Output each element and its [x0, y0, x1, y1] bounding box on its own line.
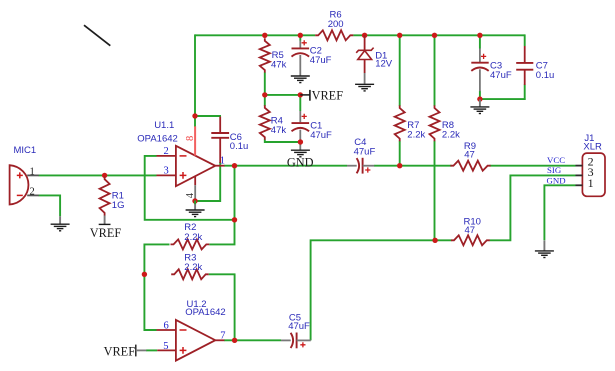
svg-text:47: 47 — [464, 149, 475, 160]
junction feedback to R2 — [232, 217, 237, 222]
capacitor C5 straight plate — [296, 333, 298, 349]
svg-text:1: 1 — [30, 166, 35, 177]
svg-text:VREF: VREF — [90, 226, 122, 240]
MIC1 plus mark — [17, 172, 23, 178]
svg-text:GND: GND — [287, 155, 314, 169]
U1.1 minus mark — [180, 155, 187, 157]
wire XLR pin1 GND down — [544, 185, 575, 240]
junction C3/C7 bottom — [477, 96, 482, 101]
svg-text:47k: 47k — [271, 125, 287, 136]
svg-text:0.1u: 0.1u — [230, 141, 249, 152]
junction VREF row / R5-R4 — [262, 92, 267, 97]
junction top rail / D1 — [362, 33, 367, 38]
resistor R1 — [100, 177, 110, 216]
capacitor C2 curved plate — [292, 53, 310, 56]
svg-text:2: 2 — [164, 146, 169, 157]
diode D1 bottom lead — [364, 60, 366, 74]
svg-text:47uF: 47uF — [490, 70, 512, 81]
capacitor C3 top lead — [479, 49, 481, 63]
ground below C3 — [479, 99, 481, 107]
wire C4 to R9 — [374, 165, 451, 167]
capacitor C2 straight plate — [292, 47, 310, 49]
junction VREF row / C1 — [298, 92, 303, 97]
capacitor C7 bottom lead — [524, 70, 526, 85]
junction U1.1 pin8 / C6 — [192, 113, 197, 118]
junction top rail / C3 — [477, 33, 482, 38]
ground below C1 — [291, 149, 310, 151]
power port VREF bar — [309, 90, 311, 101]
resistor R5 — [260, 38, 270, 72]
U1.1 pin 4 stub upper — [194, 176, 196, 185]
svg-text:U1.1: U1.1 — [154, 120, 174, 131]
capacitor C3 curved plate — [471, 68, 488, 71]
C5 plus mark — [300, 342, 305, 347]
capacitor C3 bottom lead — [479, 69, 481, 91]
capacitor C4 right lead — [363, 165, 375, 167]
wire R10 to SIG / XLR pin3 — [490, 175, 576, 240]
capacitor C1 bottom lead — [299, 130, 301, 150]
wire R8 bottom to bottom rail — [434, 141, 436, 241]
junction C1 bottom / R4 — [298, 139, 303, 144]
svg-text:5: 5 — [163, 341, 168, 352]
green stub pin4 to ground — [194, 201, 196, 205]
junction R8 / R10 — [432, 238, 437, 243]
capacitor C7 top lead — [524, 46, 526, 63]
svg-text:1G: 1G — [112, 200, 125, 211]
svg-text:47uF: 47uF — [288, 321, 310, 332]
junction U1.1 pin4 / C6 — [192, 198, 197, 203]
wire C6 top jumper — [195, 115, 221, 117]
microphone MIC1 body — [10, 165, 29, 204]
C4 plus mark — [365, 167, 370, 172]
lead MIC1 ground stub — [59, 216, 61, 224]
wire C5 to bottom rail to R10 — [311, 240, 452, 340]
C1 plus mark — [302, 114, 307, 119]
svg-text:VCC: VCC — [547, 155, 565, 165]
capacitor C4 curved plate — [357, 158, 360, 173]
wire R7 bottom to output wire — [399, 141, 401, 167]
U1.1 pin 4 stub lower — [194, 185, 196, 200]
junction U1.2 output — [232, 338, 237, 343]
svg-text:4: 4 — [185, 192, 196, 198]
svg-text:6: 6 — [164, 320, 169, 331]
svg-text:1: 1 — [588, 176, 594, 190]
capacitor C7 top plate — [516, 62, 533, 64]
capacitor C1 curved plate — [292, 128, 310, 131]
svg-text:OPA1642: OPA1642 — [137, 133, 178, 144]
svg-text:OPA1642: OPA1642 — [185, 307, 226, 318]
svg-text:47k: 47k — [271, 60, 287, 71]
svg-text:47uF: 47uF — [310, 130, 332, 141]
resistor R4 — [260, 105, 270, 140]
svg-text:47: 47 — [465, 225, 476, 236]
MIC1 minus mark — [17, 194, 23, 196]
J1 pin 2 stub — [576, 165, 583, 167]
J1 pin 1 stub — [576, 184, 583, 186]
wire R5 bottom to VREF node — [264, 72, 266, 95]
resistor R9 — [450, 161, 490, 171]
junction top rail / R8 — [432, 33, 437, 38]
wire top rail left segment — [195, 34, 315, 36]
power port VREF lead right of C1 node — [300, 94, 310, 96]
wire R3 right — [209, 273, 236, 275]
ground below C2 — [291, 75, 310, 77]
diode D1 triangle — [358, 51, 372, 60]
capacitor C4 straight plate — [362, 158, 364, 174]
wire C3 bottom — [479, 91, 481, 100]
wire U1.2 output to C5 — [224, 339, 281, 341]
capacitor C4 left lead — [347, 165, 357, 167]
svg-text:47uF: 47uF — [354, 146, 376, 157]
C2 plus mark — [302, 40, 307, 45]
wire C6 bottom jumper — [194, 162, 220, 201]
wire C7 bottom corner — [524, 85, 526, 101]
wire top rail to R7 — [399, 34, 401, 106]
capacitor C1 top lead — [299, 111, 301, 122]
junction R7 bottom — [397, 163, 402, 168]
C3 plus mark — [481, 54, 486, 59]
wire MIC1 pin1 to U1.1 pin3 — [39, 174, 157, 176]
wire top rail to C3 — [479, 34, 481, 48]
svg-text:2: 2 — [30, 186, 35, 197]
wire VREF node to R4 top — [264, 95, 266, 106]
svg-text:12V: 12V — [375, 59, 393, 70]
diode D1 ground stub — [364, 73, 366, 84]
wire top rail right segment — [353, 34, 525, 36]
svg-text:GND: GND — [547, 176, 566, 186]
svg-text:0.1u: 0.1u — [536, 70, 555, 81]
capacitor C6 top lead — [219, 117, 221, 134]
MIC1 pin 1 stub — [27, 174, 39, 176]
op-amp U1.2 triangle — [176, 320, 215, 361]
wire U1.1 output feedback down to R2 — [209, 166, 234, 245]
svg-text:XLR: XLR — [583, 141, 602, 152]
capacitor C6 bottom lead — [219, 138, 221, 163]
U1.1 pin 3 stub — [157, 174, 176, 176]
capacitor C7 bottom plate — [516, 69, 533, 71]
svg-text:7: 7 — [220, 331, 225, 342]
wire U1.1 output to C4 — [224, 165, 347, 167]
ground below D1 — [355, 83, 374, 85]
ground below MIC1 — [51, 223, 70, 225]
capacitor C2 bottom lead — [299, 55, 301, 76]
svg-text:2.2k: 2.2k — [184, 232, 202, 243]
wire top rail to R8 — [434, 34, 436, 106]
U1.1 pin 1 stub — [215, 165, 224, 167]
wire R3 right down to U1.2 output — [234, 274, 236, 341]
op-amp U1.1 triangle — [176, 146, 215, 186]
U1.1 plus mark — [180, 172, 187, 179]
wire MIC1 pin2 to ground — [39, 195, 61, 216]
svg-text:200: 200 — [328, 19, 344, 30]
J1 pin 3 stub — [576, 174, 583, 176]
connector J1 XLR box — [582, 153, 605, 196]
svg-text:47uF: 47uF — [310, 55, 332, 66]
MIC1 pin 2 stub — [27, 194, 39, 196]
svg-text:8: 8 — [185, 136, 196, 141]
svg-text:2.2k: 2.2k — [184, 262, 202, 273]
svg-text:SIG: SIG — [547, 165, 562, 175]
diode D1 zener bar — [356, 48, 373, 53]
power port VREF bar at U1.2 pin5 — [135, 345, 137, 357]
junction R3 left / pin6 node — [142, 272, 147, 277]
power port VREF lead at U1.2 pin5 — [136, 349, 147, 351]
lead R1 to VREF port — [104, 216, 106, 225]
svg-text:2.2k: 2.2k — [407, 129, 425, 140]
svg-text:2.2k: 2.2k — [442, 129, 460, 140]
resistor R8 — [430, 105, 440, 141]
wire VREF port to U1.2 pin5 — [146, 349, 157, 351]
power port VREF bar below R1 — [99, 223, 111, 225]
resistor R10 — [451, 235, 490, 245]
svg-text:VREF: VREF — [104, 345, 136, 359]
wire C3/C7 bottom rail — [479, 98, 526, 100]
capacitor C5 left lead — [281, 339, 291, 341]
U1.1 pin 2 stub — [157, 155, 176, 157]
capacitor C3 straight plate — [471, 62, 488, 64]
wire U1.1 pin2 feedback loop — [145, 156, 235, 220]
U1.2 plus mark — [180, 347, 187, 354]
wire R2 left / R3 node to U1.2 pin6 — [144, 244, 169, 330]
resistor R7 — [395, 105, 405, 141]
wire VREF node to C1 top — [299, 95, 301, 111]
junction top rail / C2 — [298, 33, 303, 38]
wire R4 bottom to C1 bottom — [265, 140, 301, 143]
wire R9 to XLR pin2 / VCC net — [490, 165, 576, 167]
wire top rail corner to C7 top — [524, 34, 526, 46]
U1.2 pin 7 stub — [215, 339, 224, 341]
junction U1.1 output — [232, 163, 237, 168]
wire VREF node horizontal — [264, 94, 302, 96]
capacitor C1 straight plate — [292, 122, 310, 124]
junction top rail / R7 — [397, 33, 402, 38]
capacitor C6 bottom plate — [211, 137, 229, 139]
wire left vertical to U1.1 pin8 — [194, 34, 196, 127]
wire top rail to C2 — [299, 34, 301, 40]
resistor R3 — [171, 269, 209, 279]
capacitor C5 right lead — [297, 339, 311, 341]
diode D1 top lead — [364, 35, 366, 50]
svg-text:3: 3 — [164, 166, 169, 177]
U1.2 pin 5 stub — [157, 349, 176, 351]
U1.1 pin 8 stub (highlighted) — [194, 126, 196, 155]
capacitor C2 top lead — [299, 41, 301, 48]
ground below XLR — [543, 240, 545, 251]
capacitor C5 curved plate — [291, 333, 294, 348]
resistor R6 — [315, 30, 353, 40]
svg-text:MIC1: MIC1 — [14, 145, 37, 156]
U1.2 pin 6 stub — [157, 329, 176, 331]
stray line — [84, 25, 110, 46]
capacitor C6 top plate — [211, 132, 229, 134]
svg-text:VREF: VREF — [312, 89, 344, 103]
ground below U1.1 pin4 — [194, 204, 196, 211]
U1.2 minus mark — [180, 329, 187, 331]
junction top rail / R5 — [262, 33, 267, 38]
junction R1 top — [102, 173, 107, 178]
resistor R2 — [171, 239, 210, 249]
